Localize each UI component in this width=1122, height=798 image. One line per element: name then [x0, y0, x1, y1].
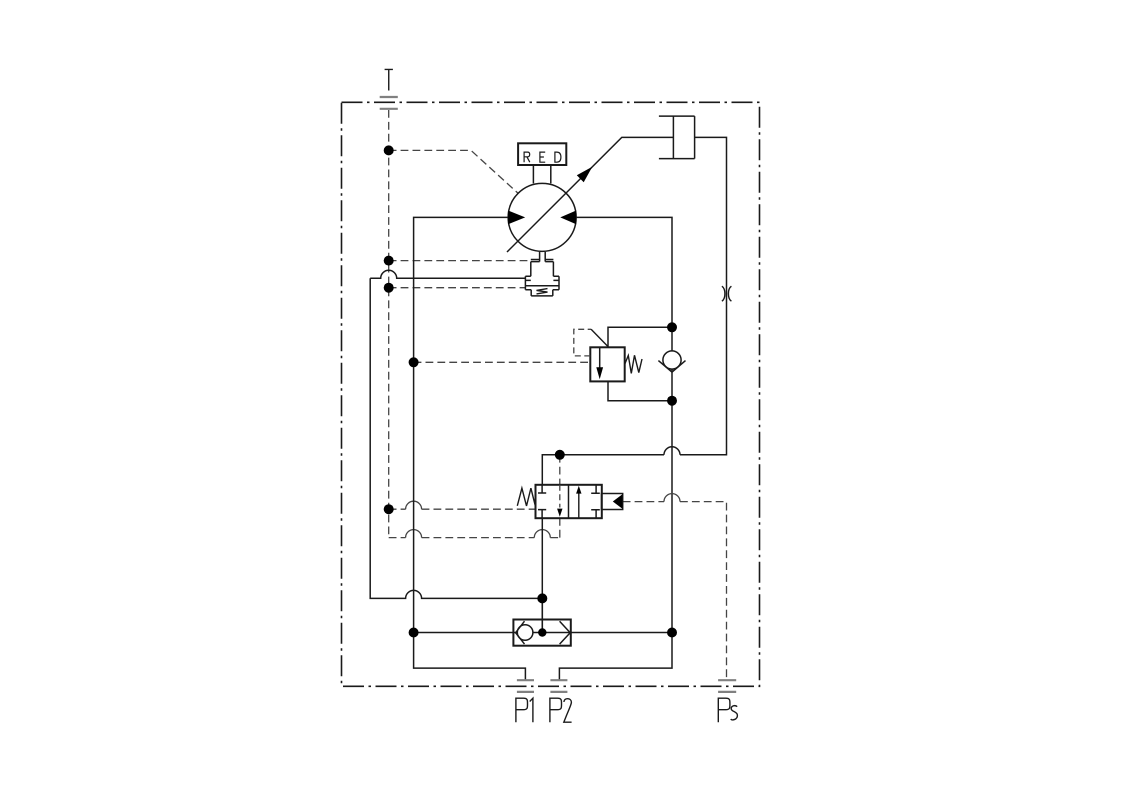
2-way valve spring [517, 488, 535, 506]
pump right flow triangle [560, 211, 576, 225]
2-way valve right cell blocked ports [591, 485, 600, 518]
orifice (restrictor) on right line [722, 286, 732, 301]
2-way valve dashed pilot passage with arrow [559, 485, 561, 508]
2-way valve left cell blocked ports [538, 485, 546, 518]
wire: dashed pilot from T-line junction to pump case [389, 150, 519, 193]
compensator spring [537, 289, 548, 294]
RED label text [524, 152, 561, 162]
port P2 tank bars [550, 680, 567, 692]
wire: shuttle right to P2 [559, 633, 672, 680]
enclosure boundary (dash-dot frame) [342, 102, 760, 686]
wire: stroking cylinder line down right side to 2-way valve [542, 137, 726, 484]
compensator (pump control valve) body [525, 252, 559, 296]
wire: dashed pilot valve top feed from cylinder line [559, 455, 561, 485]
port Ps tank bars [718, 680, 736, 692]
check valve ball [663, 351, 681, 369]
junction on drain line at 2-way valve pilot [384, 504, 394, 514]
wire: dashed pilot to compensator bottom [389, 287, 526, 289]
junction on inlet rail at relief pilot [409, 357, 419, 367]
wire: valve bottom junction to shuttle center [541, 598, 543, 632]
pump left flow triangle [508, 211, 525, 225]
relief valve spring [625, 355, 642, 373]
junction on drain line at pump case pilot [384, 145, 394, 155]
wire: pump outlet to main pressure rail [576, 217, 672, 632]
wire: pump inlet line and left rail down to P1 [414, 217, 526, 679]
relief valve internal arrow [599, 347, 601, 368]
junction pressure rail at relief bottom [667, 396, 677, 406]
wire: compensator feed line from left rail [370, 270, 542, 598]
wire: relief valve bottom connection [608, 381, 672, 400]
wire: 2-way valve bottom to bottom rail [541, 518, 543, 632]
wire: dashed pilot junction to 2-way valve pilot port [389, 508, 536, 510]
wire: dashed solenoid line to Ps [623, 502, 727, 680]
2-way valve divider [568, 485, 570, 518]
junction on drain line at compensator bottom pilot [384, 283, 394, 293]
node T label [385, 69, 393, 90]
junction on cylinder line at valve top feed [555, 450, 565, 460]
shuttle valve right seat [560, 621, 571, 644]
pump: variable displacement pump circle [508, 183, 576, 251]
shuttle valve left seat [516, 621, 525, 644]
RED box stems to pump [533, 165, 550, 183]
label P2 [550, 698, 572, 722]
wire: shuttle valve horizontal line [414, 632, 672, 634]
RED label box [518, 143, 566, 165]
shuttle valve ball [517, 625, 533, 641]
junction pressure rail at relief top [667, 322, 677, 332]
port P1 tank bars [517, 680, 534, 692]
wire: relief valve top connection [608, 327, 672, 347]
wire: dashed pilot from relief valve to pump line [414, 361, 591, 363]
wire: dashed pilot to compensator top [389, 260, 531, 262]
2-way valve flow arrow (right cell) [578, 493, 580, 519]
check valve seat [658, 361, 685, 373]
label Ps [718, 698, 737, 722]
2-way valve box [536, 485, 602, 518]
junction on drain line at compensator top pilot [384, 256, 394, 266]
relief valve vent loop (dashed) [574, 329, 591, 356]
relief valve box [590, 347, 624, 381]
junction shuttle right port [667, 628, 677, 638]
junction shuttle left port [409, 628, 419, 638]
relief valve vent diagonal [591, 329, 608, 346]
junction left bottom rail to valve drop [537, 593, 547, 603]
tank port T bars [380, 97, 398, 109]
2-way valve solenoid [602, 494, 623, 510]
junction shuttle center port [538, 628, 546, 636]
stroking cylinder [659, 116, 695, 159]
label P1 [516, 698, 533, 722]
wire: dashed drain line from T down left side [389, 110, 560, 538]
pump arrowhead [577, 167, 593, 182]
pump variable-displacement arrow line [507, 137, 673, 252]
shuttle valve box [513, 620, 570, 646]
